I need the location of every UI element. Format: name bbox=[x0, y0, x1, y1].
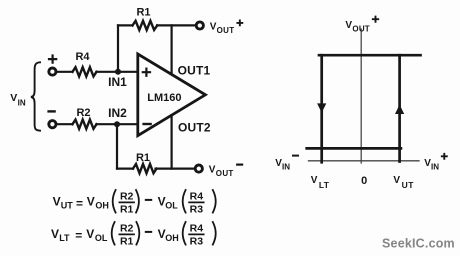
svg-text:V: V bbox=[51, 227, 59, 241]
svg-text:V: V bbox=[393, 175, 400, 186]
wire bbox=[118, 24, 195, 26]
svg-text:V: V bbox=[10, 92, 17, 104]
svg-text:OUT: OUT bbox=[217, 26, 235, 35]
svg-text:R1: R1 bbox=[136, 7, 150, 19]
input terminal - (inverting input jack) bbox=[49, 111, 56, 127]
svg-text:V: V bbox=[209, 164, 216, 175]
graph x-axis bbox=[309, 160, 420, 162]
svg-text:UT: UT bbox=[402, 180, 415, 190]
wire bbox=[117, 25, 119, 71]
hysteresis left segment (falling) bbox=[317, 55, 326, 162]
label VOUT+ (graph) bbox=[345, 17, 378, 34]
svg-text:R1: R1 bbox=[120, 235, 134, 247]
svg-text:OL: OL bbox=[165, 201, 178, 211]
equation VLT = VOL(R2/R1) - VOH(R4/R3) bbox=[51, 222, 216, 247]
svg-text:R3: R3 bbox=[190, 203, 204, 215]
svg-text:OH: OH bbox=[165, 233, 179, 243]
svg-text:IN1: IN1 bbox=[108, 75, 127, 89]
wire bbox=[116, 124, 118, 168]
svg-text:IN: IN bbox=[431, 162, 439, 171]
node VIN (input label and brace) bbox=[10, 62, 40, 130]
label VUT (graph) bbox=[393, 175, 414, 190]
svg-text:V: V bbox=[311, 175, 318, 186]
label VIN+ (graph right) bbox=[424, 154, 447, 172]
wire bbox=[56, 123, 73, 125]
hysteresis top segment bbox=[319, 54, 421, 57]
wire OUT2 bbox=[171, 115, 173, 168]
svg-text:IN2: IN2 bbox=[108, 106, 127, 120]
svg-text:LT: LT bbox=[319, 180, 330, 190]
wire bbox=[56, 71, 73, 73]
op-amp U1 LM160 bbox=[138, 54, 206, 136]
terminal VOUT- bbox=[195, 164, 242, 178]
svg-text:OH: OH bbox=[95, 201, 109, 211]
svg-text:R1: R1 bbox=[136, 152, 150, 164]
wire bbox=[96, 71, 137, 73]
svg-text:OL: OL bbox=[95, 233, 108, 243]
node IN2 bbox=[108, 106, 127, 127]
svg-text:IN: IN bbox=[282, 162, 290, 171]
resistor R1 (top feedback) bbox=[133, 7, 158, 30]
wire bbox=[117, 168, 194, 170]
label VIN- (graph left) bbox=[275, 156, 298, 172]
resistor R4 bbox=[73, 51, 97, 76]
svg-text:V: V bbox=[53, 195, 61, 209]
node IN1 bbox=[108, 69, 127, 89]
svg-text:R2: R2 bbox=[120, 191, 134, 203]
hysteresis right segment (rising) bbox=[395, 55, 404, 161]
input terminal + (non-inverting input jack) bbox=[49, 56, 56, 76]
resistor R2 bbox=[73, 107, 97, 129]
resistor R1 (bottom feedback) bbox=[133, 152, 157, 173]
svg-text:OUT: OUT bbox=[216, 169, 234, 178]
svg-text:OUT1: OUT1 bbox=[178, 63, 211, 77]
svg-text:LT: LT bbox=[59, 233, 70, 243]
svg-text:=: = bbox=[75, 228, 82, 242]
svg-text:R2: R2 bbox=[76, 107, 90, 119]
svg-text:V: V bbox=[345, 20, 352, 31]
svg-text:SeekIC.com: SeekIC.com bbox=[382, 236, 455, 250]
terminal VOUT+ bbox=[196, 20, 242, 34]
svg-text:R4: R4 bbox=[75, 51, 90, 63]
equation VUT = VOH(R2/R1) - VOL(R4/R3) bbox=[53, 190, 216, 215]
svg-text:R2: R2 bbox=[120, 223, 134, 235]
svg-text:OUT2: OUT2 bbox=[178, 120, 211, 134]
svg-text:V: V bbox=[87, 195, 95, 209]
svg-text:0: 0 bbox=[361, 175, 367, 187]
svg-text:R1: R1 bbox=[120, 203, 134, 215]
svg-text:R4: R4 bbox=[190, 191, 204, 203]
wire OUT1 bbox=[171, 25, 173, 74]
label VLT (graph) bbox=[311, 175, 330, 190]
svg-text:R4: R4 bbox=[190, 223, 204, 235]
svg-text:LM160: LM160 bbox=[147, 92, 181, 104]
wire bbox=[96, 123, 137, 125]
svg-text:R3: R3 bbox=[190, 235, 204, 247]
svg-text:UT: UT bbox=[61, 201, 73, 211]
svg-text:IN: IN bbox=[18, 99, 26, 108]
svg-text:V: V bbox=[86, 227, 94, 241]
svg-text:OUT: OUT bbox=[352, 24, 370, 33]
graph y-axis bbox=[360, 29, 362, 163]
svg-text:=: = bbox=[76, 196, 83, 210]
hysteresis bottom segment bbox=[307, 147, 401, 150]
